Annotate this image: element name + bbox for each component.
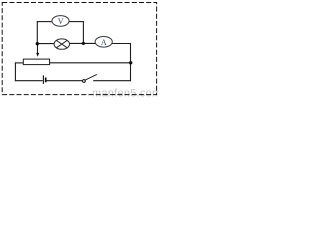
wire: node A to lamp L1 [37, 43, 55, 45]
wire: bottom row battery left lead [15, 80, 43, 82]
wire: rheostat R1 right terminal to node C [50, 62, 131, 64]
node C junction dot [129, 61, 132, 64]
rheostat R1 wiper arrowhead [36, 53, 39, 57]
node B junction dot [82, 42, 85, 45]
node A junction dot [36, 42, 39, 45]
wire: rheostat R1 left terminal [15, 62, 23, 64]
wire: right vertical [130, 44, 132, 82]
rheostat R1 body [23, 59, 49, 65]
wire: ammeter A1 to top-right corner [112, 43, 131, 45]
svg-text:manfen5.com: manfen5.com [92, 88, 159, 98]
wire: switch to right vertical lead [93, 80, 131, 82]
battery cell long plate (+) [42, 75, 44, 84]
wire: rheostat R1 wiper stem [37, 44, 39, 54]
wire: lamp L1 to ammeter A1 through node B [69, 42, 96, 44]
lamp L1 cross stroke 2 [56, 40, 67, 47]
svg-text:V: V [58, 17, 64, 26]
wire: voltmeter branch left vertical [36, 21, 38, 44]
voltmeter V1 body [52, 16, 69, 27]
lamp L1 cross stroke 1 [56, 40, 67, 47]
ammeter A1 body [95, 36, 112, 47]
wire: voltmeter branch right vertical down to node B [82, 21, 84, 44]
lamp L1 body [54, 39, 69, 49]
wire: left vertical [14, 62, 16, 81]
battery cell short thick plate (-) [45, 78, 47, 83]
wire: battery to switch lead [46, 80, 82, 82]
wire: voltmeter branch right horizontal [69, 21, 84, 23]
wire: voltmeter branch left horizontal [37, 21, 53, 23]
svg-text:A: A [101, 38, 107, 47]
switch S1 pivot circle [83, 80, 86, 83]
switch S1 lever [85, 74, 97, 80]
